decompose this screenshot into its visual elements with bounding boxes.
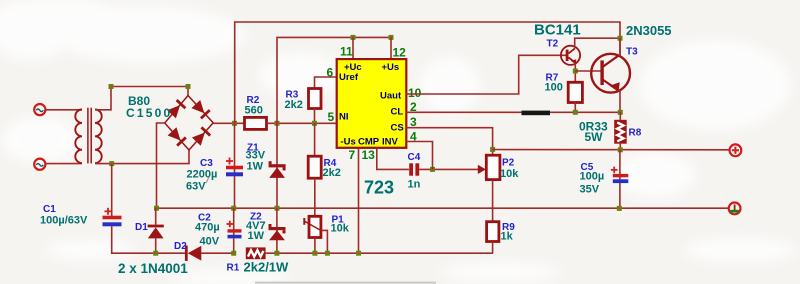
node C4 INV junction — [430, 167, 435, 172]
wire C5 branch — [619, 150, 621, 208]
potentiometer P2 — [486, 155, 500, 179]
wire R4 branch — [314, 123, 316, 156]
svg-text:40V: 40V — [200, 236, 220, 248]
wire R1 right to lower bus — [266, 252, 493, 254]
svg-text:C3: C3 — [200, 158, 213, 169]
node Z1 bottom on ground bus — [275, 206, 280, 211]
svg-text:D1: D1 — [135, 222, 148, 233]
wire P2 bottom to R9 — [492, 180, 494, 222]
bridge diode top-right — [191, 100, 210, 119]
node R3 bottom — [312, 121, 317, 126]
svg-text:-Us: -Us — [341, 137, 356, 148]
svg-text:11: 11 — [340, 45, 353, 59]
capacitor C5 — [611, 167, 628, 184]
node T2 emitter T3 base R7 — [573, 69, 578, 74]
svg-text:D2: D2 — [174, 241, 187, 252]
wire pin 6 Uref to R3 — [315, 77, 337, 89]
capacitor C2 — [227, 221, 242, 239]
potentiometer P1 — [304, 216, 327, 253]
bridge diode bottom-left — [168, 127, 187, 146]
capacitor C4 — [409, 163, 419, 175]
transistor T2 BC141 — [561, 46, 580, 65]
resistor R2 — [245, 117, 267, 129]
bridge diode bottom-right — [192, 126, 211, 145]
svg-text:560: 560 — [245, 105, 263, 117]
svg-text:1W: 1W — [248, 230, 265, 242]
arrow P2 wiper — [478, 165, 486, 174]
node Z2 bottom on lower bus — [274, 251, 279, 256]
svg-text:1W: 1W — [247, 161, 264, 173]
node bridge top corner — [186, 84, 191, 89]
svg-text:10k: 10k — [500, 168, 519, 180]
svg-text:470µ: 470µ — [195, 222, 220, 234]
node D1 bottom on lower bus — [153, 251, 158, 256]
wire R4 bottom to P1 — [314, 178, 316, 216]
wire rail A top supply — [235, 22, 620, 123]
svg-text:NI: NI — [339, 112, 349, 123]
wire CL rail to R8 — [619, 112, 621, 120]
wire C4 to P2 wiper arrow — [419, 168, 478, 170]
diode D1 — [148, 208, 164, 253]
svg-text:T2: T2 — [547, 39, 559, 50]
diode D2 — [185, 246, 234, 261]
wire Z1 branch — [276, 123, 278, 208]
svg-text:R1: R1 — [227, 263, 240, 274]
node P1 wiper — [325, 251, 330, 256]
wire pin 7 to lower bus — [358, 148, 360, 253]
svg-text:100µ: 100µ — [580, 171, 605, 183]
node C3 bottom on ground bus — [231, 206, 236, 211]
node secondary top corner — [109, 84, 114, 89]
svg-text:100µ/63V: 100µ/63V — [40, 215, 88, 227]
node C5 bottom on ground bus — [617, 206, 622, 211]
wire T2 emitter to node — [574, 63, 576, 82]
wire C2 branch — [233, 208, 235, 253]
wire pin 10 Uaut to T2 base — [406, 55, 567, 94]
wire R8 bottom to plus rail — [619, 144, 621, 150]
svg-text:2200µ: 2200µ — [187, 169, 218, 181]
wire pin 12 drop — [390, 37, 392, 59]
wire bridge left corner to ground bus — [157, 123, 165, 208]
node pin 12 — [389, 35, 394, 40]
svg-text:2k2: 2k2 — [285, 99, 303, 111]
wire C1 branch down — [111, 164, 113, 216]
node transformer bottom junction — [109, 161, 114, 166]
node R8 bottom on plus rail — [618, 147, 623, 152]
artifact black mark on CL rail — [522, 111, 551, 116]
node T3 emitter on CL rail — [618, 110, 623, 115]
svg-text:2N3055: 2N3055 — [626, 23, 672, 38]
wire T3 emitter down to CL rail — [619, 90, 621, 112]
svg-text:1k: 1k — [501, 231, 514, 243]
node CS corner P2 top — [490, 147, 495, 152]
wire secondary top to bridge top — [95, 87, 188, 110]
wire C3 branch — [234, 123, 236, 208]
ground bus wire — [157, 207, 729, 209]
resistor R1 power — [246, 247, 266, 259]
svg-text:2k2/1W: 2k2/1W — [244, 260, 290, 275]
svg-text:723: 723 — [364, 178, 394, 198]
wire C1 bottom to lower bus — [112, 226, 185, 253]
svg-text:+Us: +Us — [382, 62, 400, 73]
node pin 7 on lower bus — [356, 251, 361, 256]
node P1 bottom — [312, 251, 317, 256]
resistor R4 — [308, 156, 321, 178]
resistor R3 — [309, 89, 322, 109]
wire R2 right to IC pin5 — [267, 122, 337, 124]
wire pin 11 drop — [352, 37, 354, 59]
svg-text:R8: R8 — [629, 128, 642, 139]
svg-text:2 x 1N4001: 2 x 1N4001 — [118, 261, 188, 276]
wire rail B to IC top pins — [277, 37, 391, 123]
node R2 right — [275, 121, 280, 126]
svg-text:7: 7 — [349, 148, 356, 162]
wire T2 collector to rail A — [575, 38, 620, 48]
wire Z2 branch — [276, 208, 278, 253]
svg-text:12: 12 — [393, 46, 407, 60]
svg-text:T3: T3 — [626, 47, 638, 58]
svg-text:5W: 5W — [585, 130, 604, 144]
svg-text:C1: C1 — [43, 204, 56, 215]
wire X2 to primary — [46, 163, 82, 165]
svg-text:INV: INV — [382, 137, 399, 148]
wire pin 4 INV — [406, 142, 433, 170]
node rail A tap — [232, 121, 237, 126]
svg-text:C1500: C1500 — [126, 106, 172, 120]
artifact tick — [206, 177, 209, 183]
svg-text:1n: 1n — [408, 179, 421, 191]
wire R9 bottom to lower bus — [492, 242, 494, 254]
svg-text:CS: CS — [391, 123, 404, 134]
wire pin 13 to C4 — [377, 148, 409, 170]
capacitor C1 — [103, 208, 122, 227]
AC terminal X1 — [34, 104, 45, 115]
svg-text:5: 5 — [328, 110, 335, 124]
svg-text:Uaut: Uaut — [380, 91, 402, 102]
wire P1 bottom to lower bus — [314, 238, 316, 254]
wire R7 bottom to CL rail — [574, 103, 576, 113]
artifact gray line bottom — [255, 282, 436, 284]
svg-text:10k: 10k — [331, 223, 350, 235]
svg-text:CMP: CMP — [358, 137, 380, 148]
node bridge-left on ground bus — [154, 206, 159, 211]
resistor R7 — [568, 82, 582, 102]
transistor T3 2N3055 — [591, 54, 630, 93]
terminal output ground — [729, 203, 741, 215]
wire pin 3 CS to P2 top — [406, 128, 493, 156]
wire node to T3 base — [575, 70, 600, 72]
resistor R8 power — [614, 120, 627, 144]
svg-text:CL: CL — [391, 107, 404, 118]
svg-text:6: 6 — [327, 66, 334, 80]
bridge diode top-left — [167, 99, 186, 118]
svg-text:100: 100 — [545, 82, 563, 94]
wire pin 2 CL rail — [406, 111, 621, 113]
capacitor C3 — [226, 158, 243, 177]
wire secondary bottom to bridge bottom — [95, 150, 189, 164]
transformer TR1 — [75, 108, 101, 164]
svg-text:13: 13 — [362, 148, 376, 162]
svg-text:Uref: Uref — [339, 72, 359, 83]
wire X1 to primary — [46, 109, 82, 111]
node R7 bottom on CL rail — [573, 110, 578, 115]
resistor R9 — [487, 222, 499, 242]
svg-text:35V: 35V — [580, 184, 600, 196]
svg-text:C4: C4 — [408, 152, 421, 163]
node C2 bottom on lower bus — [231, 251, 236, 256]
wire T3 collector up — [619, 38, 621, 56]
svg-text:2k2: 2k2 — [323, 167, 341, 179]
zener Z1 — [269, 161, 286, 178]
zener Z2 — [269, 224, 286, 240]
svg-text:BC141: BC141 — [534, 22, 581, 39]
terminal output plus — [730, 144, 742, 156]
output plus rail — [493, 149, 730, 151]
wire bridge right corner to NI rail — [213, 122, 244, 124]
wire R3 bottom to NI rail — [314, 109, 316, 124]
op-amp regulator U1 723 — [337, 59, 407, 148]
node pin 11 — [351, 35, 356, 40]
AC terminal X2 — [34, 159, 45, 170]
svg-text:63V: 63V — [186, 181, 206, 193]
node rail A T3 collector junction — [618, 36, 623, 41]
svg-text:P2: P2 — [502, 158, 515, 169]
svg-text:10: 10 — [408, 86, 422, 100]
bridge rectifier B80C1500 diamond — [165, 96, 214, 151]
